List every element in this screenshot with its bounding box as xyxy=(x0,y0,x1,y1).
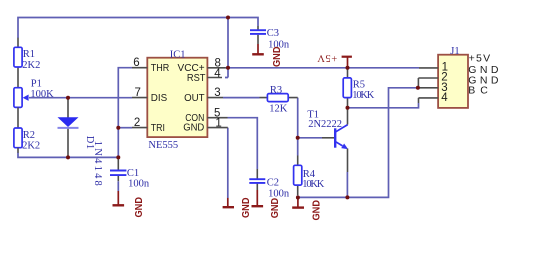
svg-text:GND: GND xyxy=(312,200,323,221)
net label GND pin2 xyxy=(468,64,502,76)
pin label THR pin 6 xyxy=(133,57,169,74)
svg-text:R1: R1 xyxy=(23,49,35,60)
resistor R1 xyxy=(14,38,40,88)
J1 pin number 3 xyxy=(441,82,447,94)
wire emitter to ground run xyxy=(346,172,348,197)
svg-text:P1: P1 xyxy=(31,79,42,90)
svg-text:7: 7 xyxy=(134,87,140,99)
svg-text:R5: R5 xyxy=(353,79,365,90)
svg-text:BC: BC xyxy=(468,85,493,97)
wire bottom left xyxy=(18,153,118,158)
ground below C3 xyxy=(252,44,283,67)
junction node wiper D1 xyxy=(66,96,70,100)
pin label CON pin 5 xyxy=(185,107,220,124)
svg-text:RST: RST xyxy=(187,73,206,84)
svg-text:2K2: 2K2 xyxy=(22,140,40,151)
junction node TRI xyxy=(116,126,120,130)
svg-text:C1: C1 xyxy=(127,168,139,179)
junction node R4 ground xyxy=(296,196,300,200)
J1 pin number 4 xyxy=(441,92,448,104)
svg-text:GND: GND xyxy=(183,122,204,133)
transistor Q1 T1 2N2222 xyxy=(307,108,348,172)
potentiometer P1 xyxy=(14,79,54,128)
pin label OUT pin 3 xyxy=(184,87,221,104)
svg-text:THR: THR xyxy=(151,63,170,74)
diode D1 xyxy=(58,98,104,186)
svg-text:OUT: OUT xyxy=(184,93,205,104)
svg-text:GND: GND xyxy=(272,47,283,68)
svg-text:DIS: DIS xyxy=(151,93,168,104)
svg-text:1: 1 xyxy=(215,117,221,129)
svg-text:2: 2 xyxy=(134,117,140,129)
svg-text:4: 4 xyxy=(214,68,221,80)
svg-text:100n: 100n xyxy=(128,178,150,189)
wire OUT to R3 xyxy=(223,97,260,99)
connector J1 body xyxy=(438,46,468,108)
svg-text:GND: GND xyxy=(134,197,145,218)
svg-text:C3: C3 xyxy=(267,28,279,39)
svg-text:3: 3 xyxy=(214,87,220,99)
supply +5V symbol xyxy=(317,52,352,68)
net label BC pin4 xyxy=(468,85,493,97)
wire +5V top rail with C3 drop xyxy=(18,18,258,39)
pin label RST pin 4 xyxy=(187,68,221,84)
wire IC pin1 to ground xyxy=(227,128,229,198)
wire bottom right ground run xyxy=(298,88,418,198)
svg-text:J1: J1 xyxy=(450,46,459,57)
junction node D1 cathode xyxy=(66,155,70,159)
J1 pin stubs and bends xyxy=(418,68,438,103)
wire CON to C2 xyxy=(228,118,258,169)
J1 pin number 1 xyxy=(442,61,448,73)
svg-text:R2: R2 xyxy=(23,130,35,141)
junction node VCC pins xyxy=(226,66,230,70)
svg-text:GND: GND xyxy=(241,198,252,219)
wire VCC vertical x=228 pins 8 and 4 xyxy=(225,18,228,78)
wire base junction to T1 xyxy=(298,137,322,139)
IC1 left pin stubs xyxy=(132,68,147,128)
pin label TRI pin 2 xyxy=(134,117,165,134)
svg-text:100n: 100n xyxy=(268,188,290,199)
net label GND pin3 xyxy=(468,74,502,86)
resistor R2 xyxy=(14,128,40,153)
svg-text:NE555: NE555 xyxy=(148,140,178,151)
ground below C2 xyxy=(252,190,282,218)
wire THR to TRI vertical x=118.3 xyxy=(118,68,132,158)
ground below C1 xyxy=(113,191,146,218)
capacitor C2 xyxy=(249,169,290,199)
ground below R4 xyxy=(292,198,322,221)
junction node top rail xyxy=(226,16,230,20)
J1 pin number 2 xyxy=(441,72,447,84)
resistor R5 xyxy=(343,68,375,108)
svg-text:10KK: 10KK xyxy=(352,90,374,101)
capacitor C1 xyxy=(110,157,150,191)
junction node +5V symbol xyxy=(346,66,350,70)
svg-text:10KK: 10KK xyxy=(302,179,324,190)
svg-text:1N4148: 1N4148 xyxy=(92,141,103,186)
svg-text:12K: 12K xyxy=(269,103,288,114)
junction node collector BC xyxy=(346,106,350,110)
wire TRI stub link xyxy=(118,127,132,129)
op-amp style IC U1 NE555 body xyxy=(147,49,207,150)
IC1 right pin stubs xyxy=(207,68,227,128)
wire R4 top and bottom links xyxy=(297,138,299,198)
svg-text:C2: C2 xyxy=(267,178,279,189)
svg-text:+5V: +5V xyxy=(469,53,492,65)
junction node emitter ground xyxy=(345,195,349,199)
junction node base R3 R4 xyxy=(296,136,300,140)
ground below IC pin 1 xyxy=(223,198,252,219)
capacitor C3 xyxy=(250,26,290,51)
wire +5V horizontal rail y=67.8 xyxy=(228,67,419,69)
pin label VCC+ pin 8 xyxy=(178,57,221,74)
svg-text:TRI: TRI xyxy=(151,123,165,134)
junction node bottom left C1 xyxy=(116,155,120,159)
svg-text:+5V: +5V xyxy=(317,52,337,63)
svg-text:100K: 100K xyxy=(30,89,54,100)
svg-text:2N2222: 2N2222 xyxy=(308,119,342,130)
resistor R3 xyxy=(260,85,298,114)
svg-text:2K2: 2K2 xyxy=(22,60,40,71)
net label +5V xyxy=(469,53,492,65)
pin label GND pin 1 xyxy=(183,117,222,133)
svg-text:4: 4 xyxy=(441,92,448,104)
wire R3 to base junction xyxy=(297,98,299,138)
pin label DIS pin 7 xyxy=(134,87,167,104)
svg-text:IC1: IC1 xyxy=(170,49,186,60)
svg-text:R3: R3 xyxy=(270,85,282,96)
resistor R4 xyxy=(294,156,325,196)
wire BC net collector to J1 pin 4 xyxy=(347,103,418,108)
svg-text:6: 6 xyxy=(133,57,139,69)
svg-text:GND: GND xyxy=(270,198,281,219)
wire wiper to DIS xyxy=(29,97,132,99)
junction node J1 pins 2 3 xyxy=(416,86,420,90)
